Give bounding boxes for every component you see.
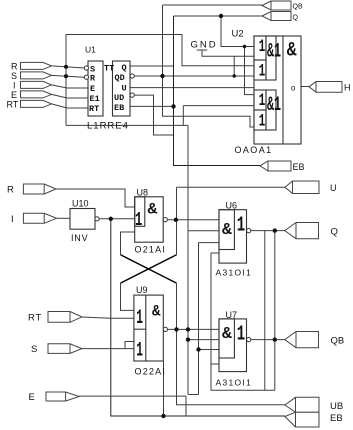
svg-text:TT: TT (104, 64, 114, 74)
svg-text:EB: EB (114, 103, 124, 113)
svg-text:O21AI: O21AI (135, 245, 167, 255)
svg-text:E: E (90, 84, 95, 94)
svg-text:o: o (291, 84, 296, 93)
svg-text:1: 1 (259, 62, 266, 81)
svg-text:&: & (287, 40, 297, 62)
svg-text:1: 1 (237, 214, 245, 238)
svg-text:RT: RT (28, 313, 42, 324)
svg-text:S: S (11, 71, 17, 81)
svg-text:1: 1 (259, 92, 266, 111)
svg-text:&: & (222, 221, 232, 240)
svg-text:Q: Q (331, 227, 338, 238)
svg-text:A31OI1: A31OI1 (216, 378, 253, 388)
svg-text:1: 1 (259, 38, 266, 57)
svg-text:1: 1 (237, 323, 245, 347)
svg-text:INV: INV (71, 233, 88, 243)
svg-text:&: & (148, 201, 158, 219)
svg-text:U8: U8 (137, 188, 149, 198)
svg-text:U7: U7 (226, 310, 238, 320)
svg-text:R: R (90, 74, 96, 84)
svg-text:U1: U1 (85, 45, 96, 55)
svg-text:QD: QD (115, 73, 125, 83)
svg-text:E: E (11, 90, 17, 100)
svg-text:U: U (330, 183, 337, 193)
svg-text:&: & (152, 302, 160, 321)
svg-text:U9: U9 (136, 285, 148, 295)
svg-text:1: 1 (135, 208, 142, 231)
svg-text:U6: U6 (226, 201, 238, 211)
svg-text:Q: Q (122, 63, 127, 73)
svg-text:E1: E1 (90, 94, 100, 104)
svg-text:QB: QB (331, 336, 345, 347)
svg-text:R: R (7, 185, 14, 196)
svg-text:UB: UB (330, 401, 343, 412)
svg-text:Q: Q (293, 15, 299, 22)
svg-text:H: H (344, 83, 351, 93)
svg-text:QB: QB (293, 4, 303, 11)
svg-text:EB: EB (293, 162, 305, 172)
svg-text:U: U (122, 84, 127, 94)
svg-text:EB: EB (330, 413, 343, 424)
svg-text:I: I (11, 214, 14, 225)
svg-text:&1: &1 (267, 39, 281, 62)
svg-text:U2: U2 (232, 29, 244, 40)
svg-text:R: R (11, 61, 18, 71)
svg-text:U10: U10 (72, 199, 89, 209)
svg-text:1: 1 (259, 112, 266, 131)
svg-text:E: E (29, 392, 35, 403)
svg-text:A31OI1: A31OI1 (216, 268, 253, 278)
svg-text:UD: UD (114, 93, 124, 103)
svg-text:OAOA1: OAOA1 (235, 145, 273, 155)
svg-text:I: I (13, 80, 16, 90)
svg-text:S: S (31, 344, 37, 355)
svg-text:GND: GND (191, 40, 218, 51)
svg-text:RT: RT (7, 99, 19, 109)
svg-text:1: 1 (136, 307, 143, 329)
svg-text:1: 1 (136, 339, 143, 361)
svg-text:&: & (222, 325, 232, 344)
svg-text:RT: RT (89, 104, 99, 114)
svg-text:O22AI: O22AI (135, 367, 167, 377)
svg-text:&1: &1 (267, 93, 281, 116)
svg-text:L1RRE4: L1RRE4 (87, 121, 129, 132)
